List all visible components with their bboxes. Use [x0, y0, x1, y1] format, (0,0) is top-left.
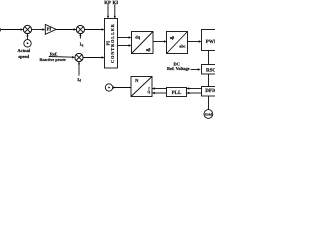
- arrow q into dq box: [129, 36, 132, 38]
- measurement transform box N: [131, 77, 152, 97]
- svg-text:abc: abc: [179, 44, 185, 49]
- arrow d into dq box: [129, 44, 132, 46]
- grid circle: [204, 110, 213, 119]
- arrow into summer S1: [21, 28, 24, 30]
- arrow into summer S2: [74, 28, 77, 30]
- alpha-beta to abc transform box: [167, 32, 188, 54]
- svg-text:Reactive power: Reactive power: [39, 57, 66, 62]
- arrow upper into measurement box: [152, 87, 155, 89]
- PWM box: [202, 30, 219, 51]
- wire PI controller q output to dq transform: [118, 37, 131, 39]
- KP gain input line: [107, 4, 109, 17]
- svg-text:Actual: Actual: [17, 48, 30, 53]
- svg-text:KI: KI: [112, 0, 118, 6]
- arrow into PI controller (q input): [102, 28, 105, 30]
- arrow into transform2: [164, 40, 167, 42]
- RSC box: [202, 65, 219, 75]
- dq to alpha-beta transform box: [132, 32, 154, 54]
- arrow into PI controller (d input): [102, 56, 105, 58]
- svg-text:Iq: Iq: [80, 42, 84, 48]
- svg-text:αβ: αβ: [170, 35, 175, 40]
- svg-text:KP: KP: [104, 0, 111, 6]
- wire DFIG to PLL lower: [187, 92, 202, 94]
- DFIG box: [202, 87, 219, 97]
- wire sensor to measurement box: [113, 87, 131, 89]
- arrow into summer S3: [72, 56, 75, 59]
- Iq feedback stub: [79, 34, 81, 39]
- arrow lower into PLL: [187, 92, 190, 94]
- arrow into PI block: [42, 28, 45, 30]
- wire PI block to summer S2: [56, 29, 76, 31]
- svg-text:αβ: αβ: [146, 47, 151, 52]
- wire DC ref voltage to RSC: [191, 69, 200, 71]
- svg-text:DFIG: DFIG: [205, 88, 215, 94]
- arrow up into summer S1: [26, 34, 28, 37]
- summer S1 (speed error): [23, 25, 31, 33]
- wire summer S1 to PI block: [32, 29, 45, 31]
- wire RSC to DFIG: [208, 74, 210, 87]
- svg-text:dq: dq: [135, 34, 140, 39]
- node speed reference input fragment: [0, 28, 1, 31]
- Id feedback stub: [78, 62, 80, 76]
- wire DFIG to PLL upper: [187, 88, 202, 90]
- wire summer S3 to PI controller box: [83, 57, 104, 59]
- svg-text:Id: Id: [77, 77, 81, 83]
- arrow lower into measurement box: [152, 92, 155, 94]
- op-amp style PI speed regulator: [45, 25, 56, 35]
- svg-text:Q: Q: [147, 90, 150, 94]
- svg-text:PI: PI: [47, 27, 52, 32]
- svg-text:CONTROLLER: CONTROLLER: [110, 23, 115, 63]
- wire PI controller d output to dq transform: [118, 45, 131, 47]
- svg-text:PWM: PWM: [206, 39, 215, 45]
- arrow into RSC: [198, 68, 201, 70]
- wire DFIG to grid: [208, 96, 210, 110]
- wire Ref reactive power: [49, 56, 74, 59]
- arrow Id up into summer S3: [78, 62, 80, 65]
- arrow Iq up into summer S2: [79, 34, 81, 37]
- svg-text:Ref. Voltage: Ref. Voltage: [167, 66, 190, 71]
- wire PWM to RSC: [208, 51, 210, 65]
- summer S2 (q-axis current): [76, 25, 84, 33]
- voltage sensor circle: [105, 84, 112, 91]
- svg-text:speed: speed: [18, 54, 29, 59]
- arrow from sensor: [113, 86, 116, 88]
- actual speed sensor: [24, 40, 31, 47]
- wire PLL to measurement box lower: [152, 92, 167, 94]
- arrow into PWM: [199, 40, 202, 42]
- wire speed reference to summer S1: [1, 29, 23, 31]
- svg-text:Ref.: Ref.: [50, 52, 58, 57]
- wire transform2 to PWM: [188, 41, 201, 43]
- arrow upper into PLL: [187, 87, 190, 89]
- svg-text:RSC: RSC: [206, 67, 215, 73]
- summer S3 (d-axis / reactive power): [75, 53, 83, 61]
- wire sensor to summer S1: [27, 34, 29, 39]
- arrow KP into controller: [107, 16, 109, 19]
- KI gain input line: [114, 4, 116, 17]
- wire summer S2 to PI controller box: [84, 29, 103, 31]
- wire transform1 to transform2: [153, 41, 166, 43]
- PI controller box: [105, 19, 118, 69]
- svg-text:PLL: PLL: [172, 90, 182, 96]
- wire PLL to measurement box upper: [152, 88, 167, 90]
- svg-text:Grid: Grid: [205, 113, 212, 117]
- arrow KI into controller: [114, 16, 116, 19]
- PLL box: [167, 88, 187, 97]
